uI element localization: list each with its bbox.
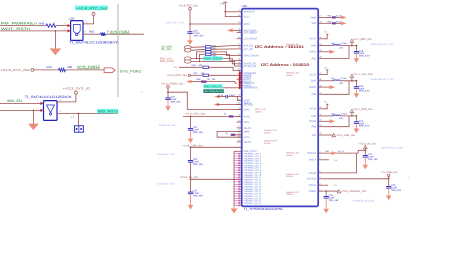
jumper J1 (2-pin) bbox=[74, 126, 83, 132]
svg-text:+V1.8_ADC_Out: +V1.8_ADC_Out bbox=[185, 112, 206, 115]
svg-text:10K: 10K bbox=[199, 64, 203, 67]
net SYS_PORZ label bbox=[77, 65, 100, 69]
svg-text:20%_16V: 20%_16V bbox=[193, 195, 203, 198]
svg-text:GND: GND bbox=[311, 16, 317, 19]
svg-text:VVIO: VVIO bbox=[244, 115, 250, 118]
ground C27 bbox=[364, 157, 366, 165]
ground C21 bbox=[190, 130, 192, 138]
svg-text:n.b.: n.b. bbox=[324, 66, 328, 69]
svg-text:PM_PWRFAILn: PM_PWRFAILn bbox=[1, 22, 37, 26]
svg-text:150mA: 150mA bbox=[286, 175, 293, 178]
svg-text:PWRT_E GPIO: PWRT_E GPIO bbox=[204, 57, 223, 61]
wire SDA to R51 bbox=[191, 46, 205, 49]
capacitor C15 bbox=[187, 30, 204, 38]
wire ground drop U30 bbox=[32, 110, 34, 124]
note PMIC 1.8V (CLK row) bbox=[286, 43, 300, 48]
capacitor C20 10uF bbox=[354, 81, 370, 93]
svg-text:115mA: 115mA bbox=[264, 142, 271, 145]
power flag +V1.8_RTC_Out (top middle) bbox=[179, 4, 198, 10]
power flag +V3.3_VDDSHV_Out bbox=[337, 190, 366, 193]
no-connect arrow GND row bbox=[341, 16, 347, 20]
ground C31 bbox=[325, 198, 327, 209]
no-connect arrow GND row (+V1.2_DDR_Out) bbox=[323, 119, 335, 123]
svg-text:300mA: 300mA bbox=[286, 193, 293, 196]
svg-text:+V1.8_IO_Out: +V1.8_IO_Out bbox=[358, 143, 376, 146]
svg-text:Default at 1.8V: Default at 1.8V bbox=[157, 153, 174, 156]
no-connect stub VCC (+V1.1_MPU_Out) bbox=[323, 31, 328, 39]
output arrow TESTV row bbox=[214, 103, 242, 107]
wire USB to IO chain bbox=[190, 162, 192, 179]
svg-text:R42: R42 bbox=[89, 29, 95, 33]
buffer U30 TI_SN74LVC1G125DCK bbox=[44, 101, 58, 121]
wire ground drop from pin 3 bbox=[54, 31, 56, 49]
ground C24 bbox=[355, 123, 357, 128]
svg-text:VMMC: VMMC bbox=[309, 190, 317, 193]
wire +V1.8_USB_Out rail bbox=[190, 146, 242, 160]
power symbol +V1.8_RTC_Out circle bbox=[92, 12, 95, 15]
capacitor C19 bbox=[165, 96, 181, 104]
svg-text:+V1_USB_Out: +V1_USB_Out bbox=[380, 171, 397, 174]
resistor R54 bbox=[206, 53, 218, 57]
svg-text:+V1.8_VDDIO_Out: +V1.8_VDDIO_Out bbox=[161, 82, 183, 85]
svg-text:20%_16V: 20%_16V bbox=[391, 189, 401, 192]
wire +V1.1_Core_Out node bbox=[340, 80, 357, 82]
svg-text:Default at 1.1V: Default at 1.1V bbox=[371, 78, 395, 81]
svg-text:FB3: FB3 bbox=[312, 126, 317, 129]
svg-text:VAUX2: VAUX2 bbox=[244, 141, 252, 144]
net PMIC_PWR_ON label (highlighted) bbox=[203, 84, 236, 88]
svg-text:VCC5: VCC5 bbox=[310, 108, 317, 111]
ground C29 bbox=[388, 188, 390, 195]
ground C16 bbox=[355, 53, 357, 58]
svg-text:VPLL: VPLL bbox=[244, 121, 251, 124]
wire FB loop (+V1.1_Core_Out) bbox=[323, 81, 349, 95]
power flag +V1_USB_Out bbox=[380, 171, 397, 186]
svg-text:VCC6: VCC6 bbox=[310, 73, 317, 76]
wire WDT_RSTn bbox=[0, 30, 67, 32]
svg-text:20%_16V: 20%_16V bbox=[171, 100, 181, 103]
ground C15 bbox=[189, 33, 191, 40]
net PWRT_E GPIO label (highlighted) bbox=[203, 56, 222, 60]
wire power to U29 pin 5 bbox=[83, 15, 94, 24]
capacitor C76 100pF (series) bbox=[214, 94, 242, 101]
svg-text:VFB: VFB bbox=[311, 22, 316, 25]
resistor R58 NL_10K bbox=[192, 78, 237, 83]
wire R54 to IC jog bbox=[211, 54, 237, 60]
power symbol +V3.3_SYS_IO bbox=[63, 86, 91, 94]
wire R52 to SCL_SD pin bbox=[211, 48, 237, 50]
no-connect arrow VFB row bbox=[341, 21, 347, 25]
svg-text:WDI_RSTn: WDI_RSTn bbox=[98, 110, 118, 114]
svg-text:20%_16V: 20%_16V bbox=[193, 131, 203, 134]
wire +V3.3_IO_Out rail bbox=[190, 178, 242, 191]
power flag +V1.1_Core_Out bbox=[350, 73, 373, 81]
IC U1 left pin stubs and numbers bbox=[237, 9, 242, 142]
input arrow U30 pin 1 bbox=[40, 109, 43, 112]
no-connect stub VDIG1 bbox=[323, 184, 338, 187]
svg-text:NL_R: NL_R bbox=[336, 20, 342, 23]
svg-text:20%_16V: 20%_16V bbox=[329, 199, 339, 202]
capacitor C23 bbox=[188, 158, 204, 166]
svg-text:+V3.3_SYS_IO: +V3.3_SYS_IO bbox=[63, 86, 91, 90]
capacitor C24 10uF bbox=[354, 116, 370, 128]
svg-text:+V1.8_RTC_Out: +V1.8_RTC_Out bbox=[167, 74, 188, 77]
svg-text:PMIC_SLEEP: PMIC_SLEEP bbox=[160, 60, 174, 63]
wire U30 lower input bbox=[0, 110, 40, 112]
svg-text:+V3.3_USB_Out: +V3.3_USB_Out bbox=[336, 134, 356, 137]
capacitor C16 10uF bbox=[354, 46, 370, 58]
svg-text:n.b.: n.b. bbox=[174, 66, 178, 69]
resistor NL (VMMC row) bbox=[226, 132, 242, 136]
svg-text:VIO: VIO bbox=[312, 134, 316, 137]
svg-text:Default at 1.1V: Default at 1.1V bbox=[371, 43, 395, 46]
svg-text:+V3.3_VDDSHV_Out: +V3.3_VDDSHV_Out bbox=[341, 190, 367, 193]
wire +V1.8_ADC_Out rail bbox=[183, 116, 242, 118]
no-connect stub VCC (+V1.2_DDR_Out) bbox=[323, 101, 328, 109]
svg-text:SYS_PORZ: SYS_PORZ bbox=[120, 70, 142, 74]
svg-text:150mA: 150mA bbox=[255, 110, 262, 113]
bus entry oval PMIC_OUT bbox=[184, 57, 191, 60]
svg-text:+V1.8_RTC_Out: +V1.8_RTC_Out bbox=[179, 4, 198, 7]
inductor L51 2.2uH bbox=[323, 77, 347, 85]
svg-text:VIO1A: VIO1A bbox=[309, 159, 317, 162]
svg-text:SM2: SM2 bbox=[311, 80, 317, 83]
svg-text:+V1.1_Core_Out: +V1.1_Core_Out bbox=[353, 73, 373, 76]
note right rail a bbox=[286, 152, 300, 157]
svg-text:VDIG1: VDIG1 bbox=[309, 184, 317, 187]
ground U30 bbox=[28, 124, 38, 130]
note VDAC rail bbox=[255, 108, 267, 113]
power flag +V1.8_VDDIO_Out bbox=[161, 82, 183, 88]
net WDI_RSTn label (highlighted) bbox=[97, 109, 119, 114]
svg-text:VDDIG1: VDDIG1 bbox=[307, 152, 317, 155]
note VAUX2 rail bbox=[264, 140, 278, 145]
svg-text:NL_10K: NL_10K bbox=[208, 78, 216, 81]
svg-text:n.b.: n.b. bbox=[324, 31, 328, 34]
note VMMC rail bbox=[264, 129, 278, 134]
ground thermal stack bbox=[233, 206, 235, 208]
svg-text:NRESPWRON: NRESPWRON bbox=[244, 87, 258, 90]
svg-text:+VB: +VB bbox=[220, 3, 225, 6]
wire VDDIG1 to IO rail bbox=[358, 150, 365, 153]
thermal via stack wire and ground bbox=[234, 151, 242, 206]
svg-text:1.0A: 1.0A bbox=[339, 82, 344, 85]
resistor R46 NL_R (VFB row) bbox=[323, 20, 341, 24]
power flag +V1.8_RTC_Out (net label, highlighted) bbox=[75, 6, 108, 11]
svg-text:VCC7: VCC7 bbox=[310, 38, 317, 41]
wire R51 to SDA_SD pin bbox=[211, 45, 237, 46]
svg-text:OSC16MOUT: OSC16MOUT bbox=[244, 32, 258, 35]
wire +V1.1_MPU_Out node bbox=[340, 45, 357, 47]
svg-text:VAUX33: VAUX33 bbox=[307, 178, 317, 181]
svg-text:ECLER_EN: ECLER_EN bbox=[244, 65, 257, 68]
svg-text:20%_6.3V: 20%_6.3V bbox=[359, 90, 370, 93]
IC U1 right pin stubs and numbers bbox=[318, 15, 323, 192]
ground U29 bbox=[50, 49, 61, 55]
svg-text:THERMAL_VIA_23: THERMAL_VIA_23 bbox=[244, 204, 262, 207]
wire +VB to VBACKUP and VCC1 bbox=[224, 4, 236, 16]
svg-text:20%_6.3V: 20%_6.3V bbox=[359, 54, 370, 57]
power flag +V1.2_DDR_Out bbox=[350, 108, 373, 116]
resistor NL (ADC row) bbox=[224, 113, 233, 118]
note right rail c bbox=[286, 191, 300, 196]
IC U1 left pin input arrows bbox=[239, 71, 242, 89]
note PMIC 1.8V (SLEEP row) bbox=[286, 72, 300, 77]
svg-text:TI_SN74LVC1G125DCK: TI_SN74LVC1G125DCK bbox=[25, 95, 73, 99]
op-amp gate U29 TI_SN74LVC1G08DBVR (AND gate buffer) bbox=[69, 16, 83, 40]
svg-text:VCC4: VCC4 bbox=[244, 136, 251, 139]
svg-text:GPIO_CKSYN: GPIO_CKSYN bbox=[244, 55, 260, 58]
input arrow U29 pin 2 bbox=[67, 29, 70, 32]
input arrow U29 pin 1 bbox=[67, 24, 70, 27]
wire PMIC_SLEEP with jog to R54 bbox=[191, 54, 237, 66]
wire +V1.8_RTC_Out to R44 bbox=[34, 69, 104, 71]
svg-text:10K: 10K bbox=[67, 65, 72, 69]
svg-text:20%_16V: 20%_16V bbox=[193, 163, 203, 166]
svg-text:I2C Address : 010010: I2C Address : 010010 bbox=[261, 63, 309, 67]
wire +V1.8_RTC_Out rail to VRTC pin bbox=[189, 10, 237, 32]
svg-text:WDT_RSTn: WDT_RSTn bbox=[1, 27, 30, 31]
svg-text:GND3: GND3 bbox=[309, 120, 317, 123]
IC U1 left pin names bbox=[244, 11, 260, 144]
output arrow PWRHOLD row bbox=[186, 80, 192, 84]
svg-text:FB2: FB2 bbox=[312, 93, 317, 96]
IC U1 thermal via pins bbox=[234, 153, 262, 208]
wire SCL to R52 bbox=[191, 49, 205, 50]
svg-text:Default at 1.8V: Default at 1.8V bbox=[381, 147, 404, 150]
svg-text:+V1.8_USB_Out: +V1.8_USB_Out bbox=[182, 144, 203, 147]
svg-text:VDIG2: VDIG2 bbox=[309, 172, 317, 175]
wire U30 output to WDI_RSTn bbox=[57, 113, 118, 115]
svg-text:20%_16V: 20%_16V bbox=[368, 158, 378, 161]
svg-text:SM3: SM3 bbox=[311, 115, 317, 118]
capacitor C31 bbox=[324, 194, 340, 202]
wire R53 to GPIO_CKSYN pin bbox=[211, 52, 237, 56]
svg-text:+V1.8_RTC_Out: +V1.8_RTC_Out bbox=[1, 68, 30, 72]
wire VMMC to VDDSHV rail bbox=[323, 190, 338, 196]
ground C20 bbox=[355, 88, 357, 93]
svg-text:n.b.: n.b. bbox=[334, 159, 338, 162]
svg-text:WDI_EN: WDI_EN bbox=[7, 99, 23, 103]
connector +V1.8_RTC_Out (off-page circle) bbox=[1, 68, 34, 72]
wire WDI_EN bbox=[0, 102, 40, 104]
wire PMIC_OUT with jog to R53 bbox=[191, 52, 237, 64]
power flag +V1.8_IO_Out bbox=[358, 143, 376, 156]
svg-text:NL_R: NL_R bbox=[338, 150, 344, 153]
capacitor C17 bbox=[188, 190, 204, 198]
svg-text:20%_16V: 20%_16V bbox=[194, 34, 204, 37]
svg-text:U29: U29 bbox=[69, 16, 75, 20]
connector +V1.8_RTC_Out(c) small bbox=[167, 74, 191, 77]
resistor R44 10K bbox=[47, 65, 73, 72]
resistor R57 10K bbox=[190, 72, 236, 77]
resistor R40 bbox=[39, 22, 56, 28]
svg-text:n.b.: n.b. bbox=[71, 116, 75, 119]
sheet boundary line bbox=[117, 4, 119, 97]
resistor R45 NL_R (GND row) bbox=[323, 14, 341, 18]
svg-text:I2C_SCL: I2C_SCL bbox=[161, 48, 173, 51]
ground C17 bbox=[190, 194, 192, 205]
no-connect arrow VDDIG1 row bbox=[332, 150, 345, 155]
inductor L50 2.2uH bbox=[323, 42, 347, 50]
svg-text:REFGND: REFGND bbox=[244, 103, 253, 106]
wire to jumper J1 bbox=[78, 114, 80, 126]
resistor R56 10K bbox=[179, 64, 237, 70]
svg-text:GND1: GND1 bbox=[309, 51, 317, 54]
svg-text:VBACKUP: VBACKUP bbox=[244, 11, 255, 14]
svg-text:115mA: 115mA bbox=[264, 131, 271, 134]
off-page connector SYS_PORZ pentagon bbox=[104, 68, 115, 73]
bus entry oval PMIC_SLEEP bbox=[184, 60, 191, 63]
resistor R51 bbox=[206, 44, 218, 48]
svg-text:n.b.: n.b. bbox=[324, 101, 328, 104]
wire FB loop (+V1.2_DDR_Out) bbox=[323, 116, 349, 127]
IC U1 right pin names bbox=[307, 16, 317, 193]
svg-text:Default at 3.3V: Default at 3.3V bbox=[353, 200, 376, 203]
svg-text:PMIC_PWR_ON: PMIC_PWR_ON bbox=[204, 85, 222, 89]
bus entry oval I2C_SCL bbox=[184, 49, 191, 52]
svg-text:150mA: 150mA bbox=[286, 45, 293, 48]
svg-text:FB1: FB1 bbox=[312, 57, 317, 60]
svg-text:+V3.3_IO_Out: +V3.3_IO_Out bbox=[180, 176, 199, 179]
capacitor C29 bbox=[386, 184, 402, 192]
svg-text:SYS_PORZ: SYS_PORZ bbox=[110, 30, 130, 34]
power symbol +VB bbox=[220, 2, 228, 5]
svg-text:VRTC: VRTC bbox=[244, 23, 250, 26]
svg-text:n.b.: n.b. bbox=[334, 184, 338, 187]
resistor R42 bbox=[89, 29, 109, 36]
svg-text:+V1.1_MPU_Out: +V1.1_MPU_Out bbox=[353, 38, 372, 41]
svg-text:SM1: SM1 bbox=[311, 45, 317, 48]
svg-text:SYS_PORZ: SYS_PORZ bbox=[77, 65, 100, 69]
svg-text:TI_TPS65910A3A1RSL: TI_TPS65910A3A1RSL bbox=[244, 207, 284, 211]
no-connect stub VIO1A bbox=[323, 159, 338, 162]
IC U1 TI_TPS65910A3A1RSL body bbox=[242, 4, 319, 206]
svg-text:1.0A: 1.0A bbox=[339, 47, 344, 50]
svg-text:150mA: 150mA bbox=[286, 74, 293, 77]
power flag +V1.8_USB_Out bbox=[182, 144, 203, 147]
svg-text:20%_6.3V: 20%_6.3V bbox=[359, 125, 370, 128]
svg-text:2.2uH: 2.2uH bbox=[341, 112, 347, 115]
input arrow U30 pin 2 bbox=[40, 102, 43, 105]
wire PM_PWRFAILn bbox=[0, 25, 67, 27]
ground C19 bbox=[167, 100, 169, 107]
svg-text:R44: R44 bbox=[47, 65, 53, 69]
svg-text:+V1.2_DDR_Out: +V1.2_DDR_Out bbox=[353, 108, 373, 111]
wire +V3.3_SYS_IO to U30 pin 5 bbox=[57, 94, 76, 102]
svg-text:GND2: GND2 bbox=[309, 86, 317, 89]
svg-text:VDAC: VDAC bbox=[244, 108, 250, 111]
note right rail b bbox=[286, 173, 300, 178]
svg-text:NL_R: NL_R bbox=[336, 14, 342, 17]
wire VAUX33 to USB rail bbox=[323, 178, 389, 180]
wire ADC cap drop bbox=[190, 116, 192, 128]
net SYS_PORZ label bbox=[110, 30, 130, 34]
svg-text:TI_SN74LVC1G08DBVR: TI_SN74LVC1G08DBVR bbox=[69, 41, 120, 45]
svg-text:U28: U28 bbox=[242, 4, 248, 8]
wire U29 output bbox=[83, 33, 144, 35]
wire +V1.2_DDR_Out node bbox=[340, 115, 357, 117]
wire VMMC-VCC4 loop bbox=[217, 131, 242, 137]
svg-text:Default at 1.8V: Default at 1.8V bbox=[159, 124, 176, 127]
power flag +V3.3_IO_Out bbox=[180, 176, 199, 179]
power flag +V1.1_MPU_Out bbox=[350, 38, 371, 46]
svg-text:SD-TPS65910A3: SD-TPS65910A3 bbox=[204, 90, 223, 93]
svg-text:1.0A: 1.0A bbox=[339, 117, 344, 120]
svg-text:2.2uH: 2.2uH bbox=[341, 77, 347, 80]
svg-text:VMMC: VMMC bbox=[244, 130, 250, 133]
inductor L52 2.2uH bbox=[323, 112, 347, 120]
variant note box SD-TPS65910A3 bbox=[203, 89, 224, 93]
resistor R53 bbox=[206, 51, 218, 55]
wire FB loop (+V1.1_MPU_Out) bbox=[323, 46, 349, 59]
wire VDIG2 loop to IO rail bbox=[323, 153, 356, 173]
svg-text:OSC_RTC = 1.8V: OSC_RTC = 1.8V bbox=[166, 21, 184, 24]
svg-text:150mA: 150mA bbox=[286, 154, 293, 157]
resistor R52 bbox=[206, 47, 218, 51]
svg-text:SCL_SD: SCL_SD bbox=[244, 48, 253, 51]
no-connect arrow GND row (+V1.1_MPU_Out) bbox=[323, 50, 335, 54]
svg-text:CLK32KOUT: CLK32KOUT bbox=[244, 38, 258, 41]
bus entry oval I2C_SDA bbox=[184, 46, 191, 49]
svg-text:2.2uH: 2.2uH bbox=[341, 42, 347, 45]
capacitor C21 bbox=[188, 126, 204, 134]
power flag +V1.8_ADC_Out bbox=[185, 112, 206, 115]
capacitor C27 bbox=[363, 153, 379, 161]
svg-text:R40: R40 bbox=[39, 22, 45, 26]
svg-text:VCC1: VCC1 bbox=[244, 16, 251, 19]
no-connect stub VCC (+V1.1_Core_Out) bbox=[323, 66, 328, 74]
no-connect arrow GND row (+V1.1_Core_Out) bbox=[323, 85, 335, 89]
net +V3.3_USB_Out label bbox=[323, 134, 355, 137]
svg-text:+V1.8_RTC_Out: +V1.8_RTC_Out bbox=[76, 6, 107, 10]
output arrow VRTC/OSC row bbox=[227, 28, 237, 32]
resistor R47 NL_R (VDDIG1 row) bbox=[323, 150, 358, 153]
svg-text:Default at 3.3V: Default at 3.3V bbox=[157, 183, 174, 186]
wire +V1.8_VDDIO_Out rail to VDAC pin bbox=[167, 88, 242, 109]
